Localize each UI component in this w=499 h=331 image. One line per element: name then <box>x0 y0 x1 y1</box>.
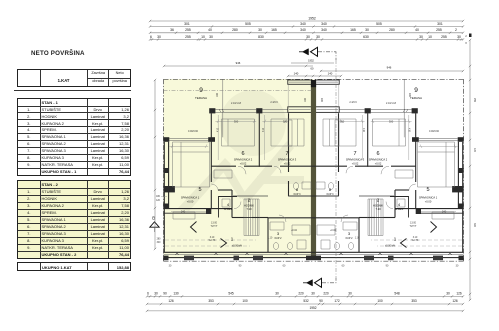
svg-text:90: 90 <box>319 299 323 303</box>
svg-text:HODNIK: HODNIK <box>373 204 383 208</box>
svg-text:90: 90 <box>163 291 167 295</box>
svg-text:548: 548 <box>394 291 400 295</box>
svg-text:0.00/0.90: 0.00/0.90 <box>429 130 440 133</box>
svg-text:300: 300 <box>283 120 288 124</box>
svg-text:180: 180 <box>304 97 307 102</box>
svg-text:2.4/0.6: 2.4/0.6 <box>270 101 278 104</box>
svg-text:±0.00/±%: ±0.00/±% <box>232 245 243 248</box>
svg-text:6: 6 <box>241 151 244 157</box>
svg-text:545: 545 <box>228 291 234 295</box>
svg-text:280: 280 <box>157 239 162 241</box>
svg-text:255: 255 <box>185 35 191 39</box>
svg-text:300: 300 <box>340 120 345 124</box>
svg-text:0.00/0.90: 0.00/0.90 <box>188 130 199 133</box>
svg-text:140: 140 <box>328 72 333 76</box>
svg-text:30: 30 <box>258 28 262 32</box>
svg-text:240: 240 <box>442 210 447 214</box>
svg-text:SPAVAONICA 3: SPAVAONICA 3 <box>278 158 297 162</box>
svg-text:KUP 2: KUP 2 <box>275 237 283 240</box>
svg-text:300: 300 <box>389 120 394 124</box>
svg-text:KUP 2: KUP 2 <box>346 237 354 240</box>
svg-text:X: X <box>465 41 467 45</box>
svg-text:+0.02: +0.02 <box>284 162 291 166</box>
svg-text:30: 30 <box>365 28 369 32</box>
svg-text:220: 220 <box>323 291 329 295</box>
svg-text:340: 340 <box>321 28 327 32</box>
svg-text:SPAVAONICA 2: SPAVAONICA 2 <box>234 158 253 162</box>
svg-text:KUP 3: KUP 3 <box>327 193 335 196</box>
svg-text:172: 172 <box>334 299 340 303</box>
svg-text:3.10: 3.10 <box>413 237 418 239</box>
svg-text:340: 340 <box>300 28 306 32</box>
svg-text:SPAVAONICA 3: SPAVAONICA 3 <box>346 158 365 162</box>
svg-text:410: 410 <box>262 127 265 132</box>
svg-text:410: 410 <box>362 128 365 133</box>
svg-text:60: 60 <box>283 265 286 268</box>
svg-text:1.10: 1.10 <box>355 238 360 240</box>
svg-text:SPAVAONICA 1: SPAVAONICA 1 <box>181 196 200 200</box>
svg-text:HODNIK: HODNIK <box>244 204 254 208</box>
svg-text:505: 505 <box>245 22 251 26</box>
svg-text:1.10: 1.10 <box>268 238 273 240</box>
svg-text:6: 6 <box>376 151 379 157</box>
svg-text:7: 7 <box>285 151 288 157</box>
svg-text:255: 255 <box>473 98 476 103</box>
svg-text:30: 30 <box>311 291 315 295</box>
svg-text:TV/T.T: TV/T.T <box>210 225 218 228</box>
svg-text:3: 3 <box>348 231 351 236</box>
svg-text:±0.00/±%: ±0.00/±% <box>385 245 396 248</box>
svg-text:30: 30 <box>348 291 352 295</box>
svg-text:2: 2 <box>455 28 457 32</box>
svg-text:5: 5 <box>426 187 429 193</box>
svg-text:126: 126 <box>452 299 458 303</box>
svg-text:340: 340 <box>300 22 306 26</box>
svg-text:2: 2 <box>465 34 467 38</box>
svg-text:5: 5 <box>198 187 201 193</box>
svg-text:60: 60 <box>311 67 314 71</box>
svg-text:30: 30 <box>169 265 172 268</box>
svg-text:9: 9 <box>414 87 418 94</box>
svg-text:180: 180 <box>156 196 161 198</box>
svg-text:946: 946 <box>387 66 392 70</box>
svg-text:30: 30 <box>154 291 158 295</box>
svg-text:255: 255 <box>441 35 447 39</box>
svg-text:165: 165 <box>350 28 356 32</box>
svg-text:7: 7 <box>353 151 356 157</box>
svg-text:TERASA: TERASA <box>195 96 207 100</box>
svg-text:40: 40 <box>208 28 212 32</box>
svg-text:255: 255 <box>185 28 191 32</box>
svg-text:300: 300 <box>234 120 239 124</box>
svg-text:300: 300 <box>473 223 476 228</box>
svg-text:90: 90 <box>386 265 389 268</box>
svg-text:9: 9 <box>199 87 203 94</box>
svg-text:SPAVAONICA 2: SPAVAONICA 2 <box>369 158 388 162</box>
svg-text:3.10: 3.10 <box>210 237 215 239</box>
svg-text:SPREM: SPREM <box>395 208 404 211</box>
svg-text:165: 165 <box>271 28 277 32</box>
svg-text:630: 630 <box>363 35 369 39</box>
svg-text:36: 36 <box>170 28 174 32</box>
svg-text:126: 126 <box>168 299 174 303</box>
svg-text:TV/T.T: TV/T.T <box>409 225 417 228</box>
svg-text:SPAVAONICA 1: SPAVAONICA 1 <box>419 196 438 200</box>
svg-text:353: 353 <box>208 299 214 303</box>
svg-text:126: 126 <box>456 291 462 295</box>
svg-text:255: 255 <box>436 28 442 32</box>
svg-text:301: 301 <box>437 22 443 26</box>
svg-text:4: 4 <box>398 202 401 207</box>
svg-text:30: 30 <box>209 35 213 39</box>
svg-text:30: 30 <box>419 35 423 39</box>
svg-text:100: 100 <box>377 299 383 303</box>
svg-text:410: 410 <box>217 127 220 132</box>
svg-text:2.10/1.18: 2.10/1.18 <box>231 102 242 105</box>
svg-text:30: 30 <box>316 35 320 39</box>
svg-text:7.10: 7.10 <box>246 207 252 211</box>
svg-text:5+1TK: 5+1TK <box>412 240 419 242</box>
svg-text:2.4/0.6: 2.4/0.6 <box>349 101 357 104</box>
svg-text:180: 180 <box>320 98 323 103</box>
svg-text:130: 130 <box>173 291 179 295</box>
svg-text:40: 40 <box>415 28 419 32</box>
svg-text:410: 410 <box>408 128 411 133</box>
svg-text:505: 505 <box>376 22 382 26</box>
svg-text:7.10: 7.10 <box>375 207 381 211</box>
svg-text:5+1TK: 5+1TK <box>209 240 216 242</box>
svg-text:30: 30 <box>446 291 450 295</box>
svg-text:240: 240 <box>181 210 186 214</box>
svg-text:+0.00: +0.00 <box>425 200 432 204</box>
svg-text:90: 90 <box>239 265 242 268</box>
svg-text:1952: 1952 <box>308 16 316 20</box>
svg-text:100: 100 <box>242 299 248 303</box>
svg-text:340: 340 <box>157 242 162 244</box>
svg-text:+0.02: +0.02 <box>352 162 359 166</box>
svg-text:2: 2 <box>377 198 380 203</box>
svg-text:830: 830 <box>258 35 264 39</box>
svg-text:10: 10 <box>201 35 205 39</box>
svg-text:532: 532 <box>303 299 309 303</box>
svg-text:946: 946 <box>236 61 241 65</box>
svg-text:420: 420 <box>473 148 476 153</box>
svg-text:6: 6 <box>147 291 149 295</box>
svg-text:10: 10 <box>428 35 432 39</box>
svg-text:+0.00: +0.00 <box>187 200 194 204</box>
svg-text:220: 220 <box>298 291 304 295</box>
svg-text:2.10/1.18: 2.10/1.18 <box>386 102 397 105</box>
svg-text:30: 30 <box>456 265 459 268</box>
svg-text:+0.02: +0.02 <box>375 162 382 166</box>
svg-text:180: 180 <box>216 92 219 97</box>
svg-text:340: 340 <box>321 22 327 26</box>
svg-text:1952: 1952 <box>308 59 314 63</box>
svg-text:60: 60 <box>342 265 345 268</box>
svg-text:1952: 1952 <box>309 306 316 310</box>
svg-text:353: 353 <box>411 299 417 303</box>
svg-text:SPREM: SPREM <box>224 208 233 211</box>
svg-text:KUP 3: KUP 3 <box>294 193 302 196</box>
svg-text:30: 30 <box>275 291 279 295</box>
svg-text:280: 280 <box>232 28 238 32</box>
svg-text:+0.02: +0.02 <box>240 162 247 166</box>
svg-text:+0.02: +0.02 <box>330 230 337 232</box>
svg-text:120: 120 <box>156 200 161 202</box>
svg-text:180: 180 <box>408 93 411 98</box>
svg-text:1: 1 <box>394 237 397 242</box>
svg-text:+0.02: +0.02 <box>291 230 298 232</box>
svg-text:301: 301 <box>184 22 190 26</box>
svg-text:30: 30 <box>306 35 310 39</box>
svg-text:280: 280 <box>389 28 395 32</box>
svg-text:140: 140 <box>294 72 299 76</box>
